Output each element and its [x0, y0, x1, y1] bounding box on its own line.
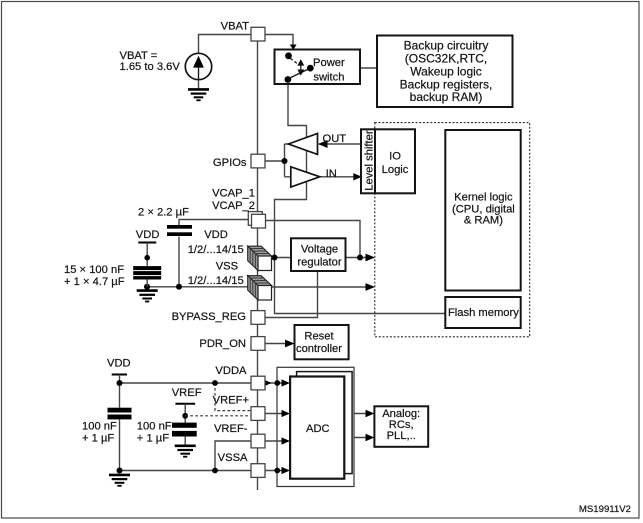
node VREF- / VSSA rail junction: [212, 468, 218, 474]
reset controller box: [295, 325, 349, 359]
svg-text:OUT: OUT: [323, 133, 347, 145]
arrowhead VDDA into ADC: [282, 379, 291, 386]
ground under caps: [137, 291, 158, 302]
svg-text:2 × 2.2 µF: 2 × 2.2 µF: [138, 206, 189, 218]
arrowhead VDDA at pin: [264, 380, 272, 387]
node VDDA / VREF+ dashed tap: [212, 380, 218, 386]
arrowhead VSSA into ADC: [282, 467, 291, 474]
backup circuitry box: [377, 36, 513, 108]
svg-text:VBAT: VBAT: [221, 21, 250, 33]
wire VCAP_2 to regulator output node: [265, 221, 360, 258]
wire main pin bus: [257, 42, 259, 491]
wire VDDA line: [120, 382, 252, 384]
power switch box: [275, 50, 361, 85]
VDD pad (hatched): [248, 246, 272, 270]
svg-text:VDDA: VDDA: [215, 365, 247, 377]
svg-text:IN: IN: [326, 168, 337, 180]
arrowhead VSS into kernel: [366, 283, 376, 291]
wire VREF+ into ADC: [265, 413, 284, 415]
svg-text:MS19911V2: MS19911V2: [579, 504, 631, 515]
capacitor 2x2.2uF: [167, 225, 192, 229]
svg-text:Kernel logic: Kernel logic: [454, 192, 513, 204]
svg-text:VCAP_2: VCAP_2: [212, 200, 255, 212]
ground under VREF cap: [175, 446, 196, 457]
pin VREF-: [251, 434, 265, 448]
level shifter box: [361, 129, 375, 193]
svg-text:Wakeup logic: Wakeup logic: [410, 64, 482, 78]
svg-text:Level shifter: Level shifter: [363, 130, 375, 191]
node VDDA on ADC group border: [274, 380, 280, 386]
wire VDD node down to flash memory: [275, 258, 446, 314]
ADC container box: [277, 367, 354, 486]
buffer IN: [291, 167, 320, 187]
power switch solid throw: [289, 69, 309, 79]
power switch dashed throw: [290, 58, 298, 64]
wire VBAT pin to power switch: [265, 35, 293, 46]
capacitor 15x100nF+4.7uF: [133, 266, 161, 270]
wires ADC to analog box: [354, 414, 368, 438]
IO logic box: [375, 129, 415, 193]
svg-text:100 nF: 100 nF: [137, 421, 172, 433]
power switch toggle arrows: [297, 59, 304, 65]
node VSSA on ADC group border: [274, 468, 280, 474]
wire regulator output to kernel: [346, 257, 367, 259]
flash memory box: [445, 297, 520, 328]
kernel logic box: [445, 130, 520, 291]
svg-text:VDD: VDD: [204, 229, 228, 241]
node on VDD rail: [144, 255, 150, 261]
wire VREF- into ADC: [265, 440, 284, 442]
svg-text:& RAM): & RAM): [464, 215, 503, 227]
analog box: [374, 406, 428, 447]
wire ground rail left: [147, 286, 258, 288]
node VDD rail / VDDA line junction: [117, 380, 123, 386]
wire PDR_ON to reset controller: [265, 343, 286, 345]
svg-text:PLL,..: PLL,..: [387, 430, 416, 442]
pin GPIOs: [251, 154, 265, 168]
svg-text:VDD: VDD: [107, 358, 131, 370]
svg-text:+ 1 µF: + 1 µF: [82, 433, 114, 445]
svg-text:backup RAM): backup RAM): [410, 90, 483, 104]
svg-text:VREF-: VREF-: [214, 423, 248, 435]
current source VBAT: [185, 53, 211, 79]
svg-text:Logic: Logic: [382, 164, 409, 176]
svg-text:regulator: regulator: [297, 256, 341, 268]
svg-text:1/2/...14/15: 1/2/...14/15: [188, 275, 244, 287]
wire 2x2.2uF cap to VCAP pin: [179, 220, 251, 226]
svg-text:100 nF: 100 nF: [82, 421, 117, 433]
svg-text:Backup registers,: Backup registers,: [400, 77, 493, 91]
svg-text:Flash memory: Flash memory: [448, 307, 519, 319]
svg-text:Power: Power: [313, 57, 345, 69]
svg-text:GPIOs: GPIOs: [213, 157, 247, 169]
ADC back box: [297, 372, 353, 474]
wire IN to level shifter: [320, 176, 354, 178]
arrowhead VREF- into ADC: [282, 437, 291, 444]
svg-text:switch: switch: [313, 72, 344, 84]
pin VBAT: [251, 27, 265, 41]
wire VREF- to VSSA rail: [215, 441, 251, 471]
svg-text:Reset: Reset: [304, 330, 334, 342]
pin VDDA: [251, 376, 265, 390]
node cap / VSSA rail junction: [117, 468, 123, 474]
pin VCAP_2: [252, 214, 266, 228]
wire 2.2uF cap bottom to ground rail: [178, 237, 180, 287]
svg-text:BYPASS_REG: BYPASS_REG: [172, 311, 246, 323]
node VREF cap junction: [182, 413, 188, 419]
buffer OUT: [288, 134, 317, 155]
node 2.2uF cap / ground rail junction: [176, 284, 182, 290]
svg-text:controller: controller: [296, 343, 342, 355]
arrowhead IN into level shifter: [353, 173, 362, 180]
wire power switch bottom to VDD node: [275, 84, 307, 258]
svg-text:1/2/...14/15: 1/2/...14/15: [188, 244, 244, 256]
wire GPIOs to buffers: [265, 144, 291, 177]
svg-text:(CPU, digital: (CPU, digital: [452, 203, 515, 215]
VREF rail: [175, 403, 195, 405]
svg-text:15 × 100 nF: 15 × 100 nF: [64, 264, 124, 276]
svg-text:VREF+: VREF+: [213, 394, 249, 406]
capacitor 100nF+1uF (VREF): [172, 423, 197, 428]
capacitor 100nF+1uF (VDD): [108, 408, 132, 413]
svg-text:PDR_ON: PDR_ON: [199, 338, 246, 350]
dashed VREF+ connection: [215, 383, 251, 411]
arrowhead upper into analog box: [366, 410, 375, 418]
node 100nF cap / ground rail junction: [144, 284, 150, 290]
svg-text:Backup circuitry: Backup circuitry: [404, 39, 489, 53]
svg-text:VCAP_1: VCAP_1: [212, 188, 255, 200]
ground under current source: [188, 89, 209, 100]
pin VCAP_1 (back square): [248, 212, 262, 226]
VSS pad (hatched): [248, 276, 272, 300]
node regulator output / VCAP junction: [357, 255, 363, 261]
voltage regulator box: [291, 238, 346, 271]
wire VSSA bottom rail: [120, 470, 252, 472]
wire OUT from level shifter: [319, 143, 361, 145]
svg-text:VREF: VREF: [172, 387, 202, 399]
svg-text:ADC: ADC: [306, 423, 330, 435]
svg-text:+ 1 × 4.7 µF: + 1 × 4.7 µF: [64, 276, 125, 288]
node GPIO junction: [282, 158, 288, 164]
ADC front box: [290, 377, 344, 479]
wire VBAT source to pin: [199, 35, 252, 54]
wire VDDA into ADC: [265, 382, 285, 384]
VDD rail lower-left: [112, 374, 127, 376]
node VDD pad junction: [272, 255, 278, 261]
svg-text:VSS: VSS: [216, 261, 238, 273]
wire VSSA into ADC: [265, 470, 284, 472]
pin BYPASS_REG: [251, 311, 265, 325]
svg-text:VSSA: VSSA: [218, 452, 248, 464]
arrowhead OUT into buffer: [318, 140, 328, 148]
svg-text:IO: IO: [389, 151, 401, 163]
pin PDR_ON: [251, 337, 265, 351]
wire VSS pad to kernel: [272, 286, 367, 288]
arrowhead into reset controller: [285, 340, 295, 348]
ground bottom-left: [109, 475, 130, 486]
pin VSSA: [251, 464, 265, 478]
kernel logic dashed box: [375, 123, 530, 337]
arrowhead into power switch top: [290, 45, 297, 50]
svg-text:1.65 to 3.6V: 1.65 to 3.6V: [120, 61, 181, 73]
arrowhead regulator output into kernel: [366, 254, 376, 262]
VDD rail upper-left: [138, 242, 156, 244]
arrowhead lower into analog box: [366, 434, 375, 442]
svg-text:+ 1 µF: + 1 µF: [137, 433, 169, 445]
power switch contacts: [285, 52, 292, 59]
wire VDD pad to regulator: [272, 257, 292, 259]
svg-text:Voltage: Voltage: [301, 243, 338, 255]
svg-text:VDD: VDD: [136, 229, 160, 241]
pin VREF+: [251, 407, 265, 421]
wire power switch to backup circuitry: [313, 67, 377, 69]
wire BYPASS_REG to regulator bottom: [265, 271, 318, 318]
arrowhead VREF+ into ADC: [282, 410, 291, 417]
